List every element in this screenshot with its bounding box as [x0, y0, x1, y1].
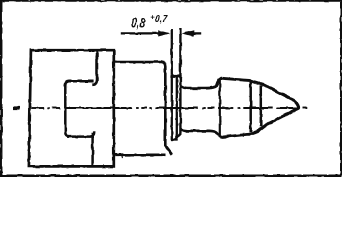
svg-text:0,8: 0,8	[131, 14, 145, 30]
washer left edge / left extension line	[171, 29, 173, 140]
pick flange face / right extension line	[179, 29, 181, 134]
outer scan border frame	[0, 0, 342, 177]
holder block outline	[29, 50, 114, 166]
holder block inner step: upper horizontal ledge	[65, 81, 93, 85]
svg-text:0,7: 0,7	[155, 13, 168, 25]
pick head base line	[219, 79, 221, 137]
pick lower profile: neck groove, shoulder, head bottom	[181, 108, 299, 137]
dimension line right segment with arrow	[182, 30, 202, 36]
carbide tip braze line	[260, 85, 263, 126]
washer bottom face bar	[171, 138, 178, 141]
holder block inner step: lower vertical to bottom edge	[91, 133, 94, 167]
carbide tip point blob	[297, 106, 300, 109]
dimension line left segment with arrow	[120, 30, 170, 36]
holder block inner step: left vertical	[65, 84, 69, 137]
holder block inner step: lower horizontal ledge with hook	[67, 131, 94, 136]
flange top face bar	[170, 75, 181, 78]
flange bottom chamfer	[176, 133, 181, 139]
cylindrical sleeve section	[114, 62, 172, 155]
holder block inner step: upper vertical with hook	[92, 51, 97, 85]
centerline (axis, dash-dot)	[14, 106, 308, 109]
pick head cap joint line	[249, 81, 252, 133]
small tick on sleeve bottom edge	[121, 153, 123, 158]
washer right edge	[176, 78, 178, 140]
pick upper profile: neck groove, shoulder, head top	[181, 78, 299, 107]
